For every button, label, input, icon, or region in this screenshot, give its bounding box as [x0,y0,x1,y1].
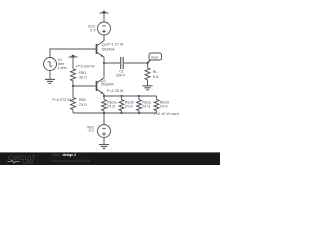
wire V1 bottom to ground [49,71,51,80]
label Q2 [101,79,124,93]
wire C1 to Vout node [124,62,148,64]
wire V1 top to Q1 base [50,49,97,58]
resistor RE2b [119,96,124,113]
svg-text:24 Ω: 24 Ω [125,105,133,109]
label RB2 value [79,98,87,107]
node emitter Q1 / collector Q2 junction [103,62,105,64]
label Q1 [102,42,124,51]
voltage source V2 VCC [98,22,111,35]
svg-text:P=0.039 W: P=0.039 W [76,65,95,69]
svg-text:1 kHz: 1 kHz [58,66,68,70]
transistor Q1 2N3904 [97,35,105,63]
svg-text:RB2: RB2 [79,98,86,102]
svg-text:RL: RL [153,70,158,74]
wire top emitter bus [104,95,157,97]
svg-text:9 V: 9 V [90,28,96,32]
svg-text:http://circuitlab.com/cpw29pd: http://circuitlab.com/cpw29pd [52,158,91,162]
svg-text:P=1.27 W: P=1.27 W [107,42,124,46]
svg-text:P=0.10 W each: P=0.10 W each [154,112,179,116]
node Vout junction [146,62,148,64]
svg-text:8 Ω: 8 Ω [153,75,159,79]
resistor RL [145,68,150,80]
svg-text:P=1.25 W: P=1.25 W [107,89,124,93]
CircuitLab logo [8,156,36,166]
svg-text:LAB: LAB [23,160,34,166]
ground (below RL) [143,86,153,90]
svg-text:75 Ω: 75 Ω [79,103,87,107]
resistor RB1 [71,69,76,81]
svg-text:2N3904: 2N3904 [102,48,115,52]
svg-text:RB1: RB1 [79,71,86,75]
label RL value [153,70,159,79]
ground (below VEE) [99,145,109,149]
label RE2b value [125,100,134,108]
node bottom bus junctions [103,112,140,114]
label RE2 power [154,112,179,116]
svg-text:P=0.073 W: P=0.073 W [52,98,71,102]
node top bus junctions [103,95,140,97]
wire RL to ground [147,80,149,86]
label Vout [151,56,158,60]
node RB1/RB2/base junction [72,85,74,87]
wire Vout node to RL [147,63,149,68]
voltage source V1 sine [44,58,57,71]
svg-text:24 Ω: 24 Ω [107,105,115,109]
flag Vout [148,53,162,63]
label C1 value [116,70,126,78]
svg-text:2N3904: 2N3904 [101,83,114,87]
footer text credit [52,153,91,162]
voltage source VEE [98,125,111,138]
resistor RE2d [154,96,159,113]
capacitor C1 [121,57,124,69]
wire base node to Q2 base [73,85,97,87]
label RE2d value [160,100,169,108]
wire VEE to ground [103,138,105,145]
label VCC value [88,24,96,32]
label RB2 power [52,98,71,102]
resistor RE2c [137,96,142,113]
svg-text:24 Ω: 24 Ω [142,105,150,109]
footer watermark bar [0,152,220,165]
wire junction to C1 [104,62,120,64]
svg-text:24 Ω: 24 Ω [160,105,168,109]
wire VCC flag to V2 [103,13,105,22]
wire RB2 to bottom bus [72,110,74,113]
label VEE value [87,125,95,133]
VCC flag (above RB1) [69,55,78,57]
label V1 value [58,58,68,70]
svg-text:9 V: 9 V [88,129,94,133]
ground (below V1) [45,79,55,83]
VCC flag (top) [100,11,109,13]
label RB1 power [76,65,95,69]
transistor Q2 2N3904 [97,63,105,96]
svg-text:Vout: Vout [151,56,158,60]
svg-text:36 Ω: 36 Ω [79,76,87,80]
wire base node to RB2 [72,86,74,98]
wire RB1 to base node [72,81,74,86]
wire bottom bus to VEE [103,113,105,125]
wire flag to RB1 [72,57,74,68]
label RE2a value [107,100,117,108]
wire bottom bus [73,112,157,114]
resistor RB2 [71,98,76,110]
resistor RE2a [102,96,107,113]
svg-text:briley / design 2: briley / design 2 [52,153,76,157]
label RE2c value [142,100,151,108]
label RB1 value [79,71,87,79]
svg-text:200 F: 200 F [116,73,126,77]
